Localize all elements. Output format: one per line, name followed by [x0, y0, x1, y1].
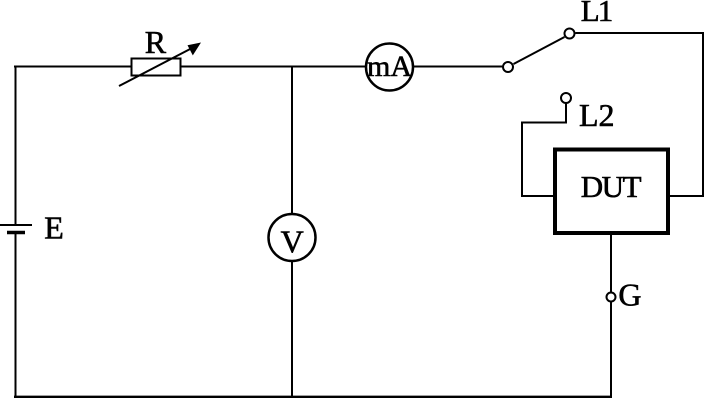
wire right to DUT	[668, 195, 704, 197]
switch S1 throw terminal L1	[565, 29, 575, 39]
wire DUT bottom to G	[610, 235, 612, 293]
svg-text:DUT: DUT	[581, 169, 642, 204]
svg-text:L1: L1	[581, 0, 612, 28]
voltmeter V circle	[269, 214, 316, 261]
battery E short plate	[7, 231, 25, 235]
resistor R1 arrow	[119, 43, 201, 87]
wire L2 horizontal	[521, 122, 567, 124]
svg-text:L2: L2	[579, 97, 615, 133]
wire bottom horizontal	[14, 396, 612, 398]
wire V branch lower	[291, 260, 293, 398]
wire resistor to mA	[181, 66, 367, 68]
DUT box	[555, 150, 668, 234]
terminal G	[607, 293, 616, 302]
switch S1 pole terminal	[503, 62, 513, 72]
switch S1 blade	[514, 37, 565, 64]
svg-text:G: G	[618, 277, 641, 313]
wire mA to switch	[413, 66, 503, 68]
wire L2 drop	[565, 104, 567, 124]
ammeter M1 circle	[366, 44, 413, 91]
wire top-left horizontal	[14, 66, 131, 68]
svg-text:R: R	[145, 24, 167, 60]
wire G to bottom	[610, 302, 612, 399]
svg-text:V: V	[281, 224, 304, 260]
wire left vertical upper	[15, 66, 17, 225]
resistor R1 body	[132, 59, 181, 76]
wire L2 into DUT	[521, 195, 556, 197]
wire right vertical	[702, 33, 704, 197]
battery E long plate	[0, 224, 32, 226]
svg-text:mA: mA	[367, 50, 412, 83]
terminal L2	[561, 93, 571, 103]
wire L1 to top-right corner	[576, 32, 705, 34]
svg-text:E: E	[44, 210, 64, 246]
wire left vertical lower	[15, 234, 17, 398]
wire L2 vertical	[521, 122, 523, 198]
wire V branch upper	[291, 66, 293, 216]
